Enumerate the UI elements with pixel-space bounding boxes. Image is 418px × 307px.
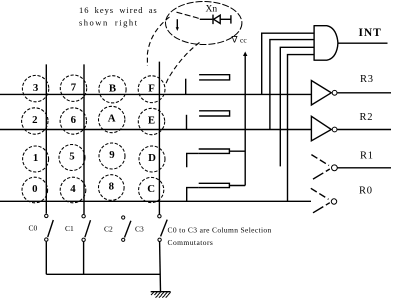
row line R3 (top row) (0, 93, 311, 95)
key 4 (60, 177, 86, 203)
svg-text:R3: R3 (360, 74, 374, 85)
keypad keys: dashed circles with labels (22, 75, 165, 203)
switch C1 (82, 215, 91, 275)
callout balloon ellipse (166, 2, 242, 45)
svg-text:F: F (148, 82, 155, 94)
inverter R0 (sketched) (311, 188, 337, 213)
svg-text:0: 0 (32, 183, 37, 195)
svg-text:Xn: Xn (206, 4, 218, 14)
row line R0 (bottom row) (0, 200, 311, 202)
switch C3 (158, 215, 168, 292)
column line C1 (83, 64, 85, 214)
svg-text:7: 7 (71, 81, 77, 93)
svg-text:B: B (109, 83, 116, 95)
svg-text:R2: R2 (360, 112, 374, 123)
svg-text:C0: C0 (29, 224, 38, 233)
key 2 (22, 108, 48, 134)
svg-text:A: A (108, 113, 116, 125)
svg-text:R0: R0 (359, 185, 373, 196)
note text: column selection commutators (168, 226, 272, 248)
svg-text:C: C (147, 183, 155, 195)
key 3 (22, 75, 48, 101)
svg-text:3: 3 (33, 82, 39, 94)
svg-text:cc: cc (240, 36, 247, 45)
key E (138, 108, 164, 134)
pull-up resistor 3 (187, 149, 246, 167)
pull-up resistor 1 (186, 75, 230, 95)
inverter R3 (311, 81, 391, 106)
row line R2 (0, 129, 311, 131)
svg-text:C2: C2 (104, 225, 113, 234)
key 1 (23, 146, 49, 172)
switch C2 (unconnected) (122, 216, 131, 242)
svg-text:9: 9 (109, 149, 115, 161)
column line C0 (45, 64, 47, 213)
AND gate U1 (314, 26, 338, 61)
inverter R2 (311, 116, 391, 141)
key 0 (22, 177, 48, 203)
key 9 (99, 143, 125, 169)
column line C3 (158, 62, 160, 214)
key D (139, 146, 165, 172)
svg-text:∇: ∇ (231, 35, 239, 45)
svg-text:4: 4 (70, 183, 76, 195)
svg-text:6: 6 (71, 114, 77, 126)
svg-text:shown right: shown right (79, 18, 138, 28)
svg-text:E: E (148, 115, 155, 127)
wire row3 riser to AND input 3 (dangling) (280, 47, 314, 166)
svg-text:2: 2 (32, 114, 37, 126)
svg-text:R1: R1 (360, 151, 374, 162)
wire row1 to AND input 1 (262, 33, 314, 94)
bus wire (columns common) (46, 273, 160, 275)
key B (99, 76, 126, 103)
pull-up resistor 4 (187, 183, 246, 201)
pull-up resistor 2 (187, 111, 230, 130)
wire row2 to AND input 2 (270, 40, 314, 130)
wire row4 to AND input 4 (288, 55, 315, 202)
key A (99, 106, 125, 132)
callout leader right arc (166, 43, 200, 86)
key 5 (59, 145, 85, 171)
diode Xn (200, 15, 231, 25)
wire AND output INT (338, 42, 387, 44)
key press arrow (down) (176, 19, 179, 31)
annotation text: 16 keys wired as shown right (79, 5, 158, 28)
key labels (32, 81, 156, 195)
Vcc power symbol (231, 35, 248, 186)
key 6 (60, 108, 86, 134)
key F (138, 76, 165, 103)
svg-text:C0 to C3 are Column Selection: C0 to C3 are Column Selection (168, 226, 272, 235)
key switch arm inside balloon (177, 12, 202, 19)
switch C0 (45, 214, 54, 274)
svg-text:Commutators: Commutators (168, 238, 214, 247)
key C (139, 177, 164, 202)
svg-text:16 keys wired as: 16 keys wired as (79, 5, 158, 15)
inverter R1 (sketched) (311, 155, 391, 180)
svg-text:8: 8 (109, 181, 115, 193)
svg-text:INT: INT (359, 27, 382, 39)
callout leader left arc (147, 17, 169, 66)
svg-text:D: D (148, 152, 156, 164)
svg-text:C1: C1 (65, 224, 74, 233)
key 8 (99, 175, 125, 201)
ground (151, 292, 171, 298)
svg-text:C3: C3 (135, 225, 144, 234)
svg-text:5: 5 (69, 151, 74, 163)
key 7 (60, 75, 86, 101)
svg-text:1: 1 (33, 152, 38, 164)
